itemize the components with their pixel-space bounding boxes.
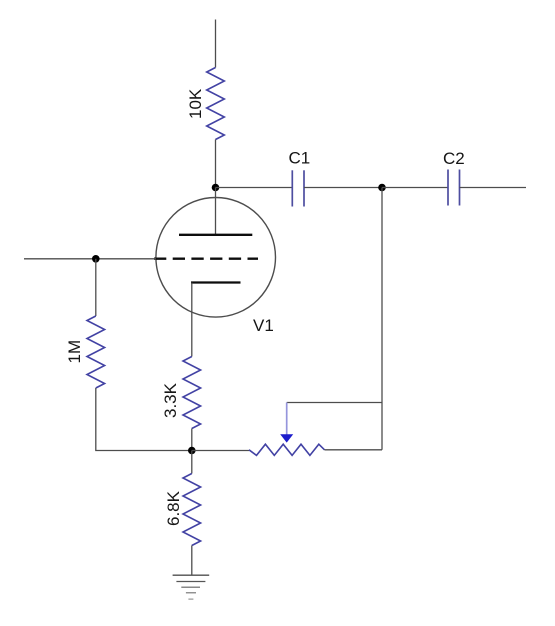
tube V1 plate bar (179, 234, 252, 236)
node plate junction dot (212, 184, 220, 192)
wire input node down to 1M (95, 259, 97, 316)
resistor R 1M (87, 316, 105, 388)
wire plate pin down into tube (215, 188, 217, 235)
capacitor C1 (292, 170, 304, 206)
svg-text:1M: 1M (65, 340, 84, 364)
svg-text:V1: V1 (253, 316, 274, 335)
wire potentiometer right lead (325, 449, 383, 451)
wire 6.8K to ground (191, 546, 193, 576)
wire cathode node to potentiometer (192, 450, 249, 452)
wiper stub (286, 403, 288, 436)
potentiometer body zigzag (249, 444, 325, 455)
tube V1 grid dashes (154, 258, 258, 260)
wire C2 to right output (460, 187, 527, 189)
svg-text:3.3K: 3.3K (161, 382, 180, 418)
wire C1 to output node (304, 187, 382, 189)
wire plate node to C1 (216, 187, 293, 189)
svg-text:10K: 10K (186, 88, 205, 119)
wiper arrow (280, 434, 293, 442)
node output junction dot (378, 184, 386, 192)
tube V1 cathode bar (191, 281, 241, 283)
wire wiper horizontal (287, 402, 382, 404)
wire output node to C2 (382, 187, 448, 189)
wire cathode lead (191, 283, 193, 357)
svg-text:6.8K: 6.8K (164, 490, 183, 526)
resistor R 10K (207, 68, 225, 140)
resistor R 6.8K (183, 474, 201, 546)
wire 1M bottom to cathode rail (96, 388, 192, 451)
wire 3.3K to cathode node (191, 429, 193, 451)
wire grid input (24, 258, 156, 260)
wire cathode node to 6.8K (191, 451, 193, 474)
wire top supply lead (215, 20, 217, 68)
wire feedback vertical from output node (381, 188, 383, 450)
node grid input junction dot (92, 255, 100, 263)
ground (173, 575, 210, 599)
capacitor C2 (448, 170, 460, 206)
tube V1 envelope (156, 197, 276, 317)
resistor R 3.3K (183, 357, 201, 429)
svg-text:C2: C2 (443, 149, 465, 168)
svg-text:C1: C1 (289, 149, 311, 168)
wire 10K to plate node (215, 140, 217, 188)
node cathode junction dot (188, 447, 196, 455)
